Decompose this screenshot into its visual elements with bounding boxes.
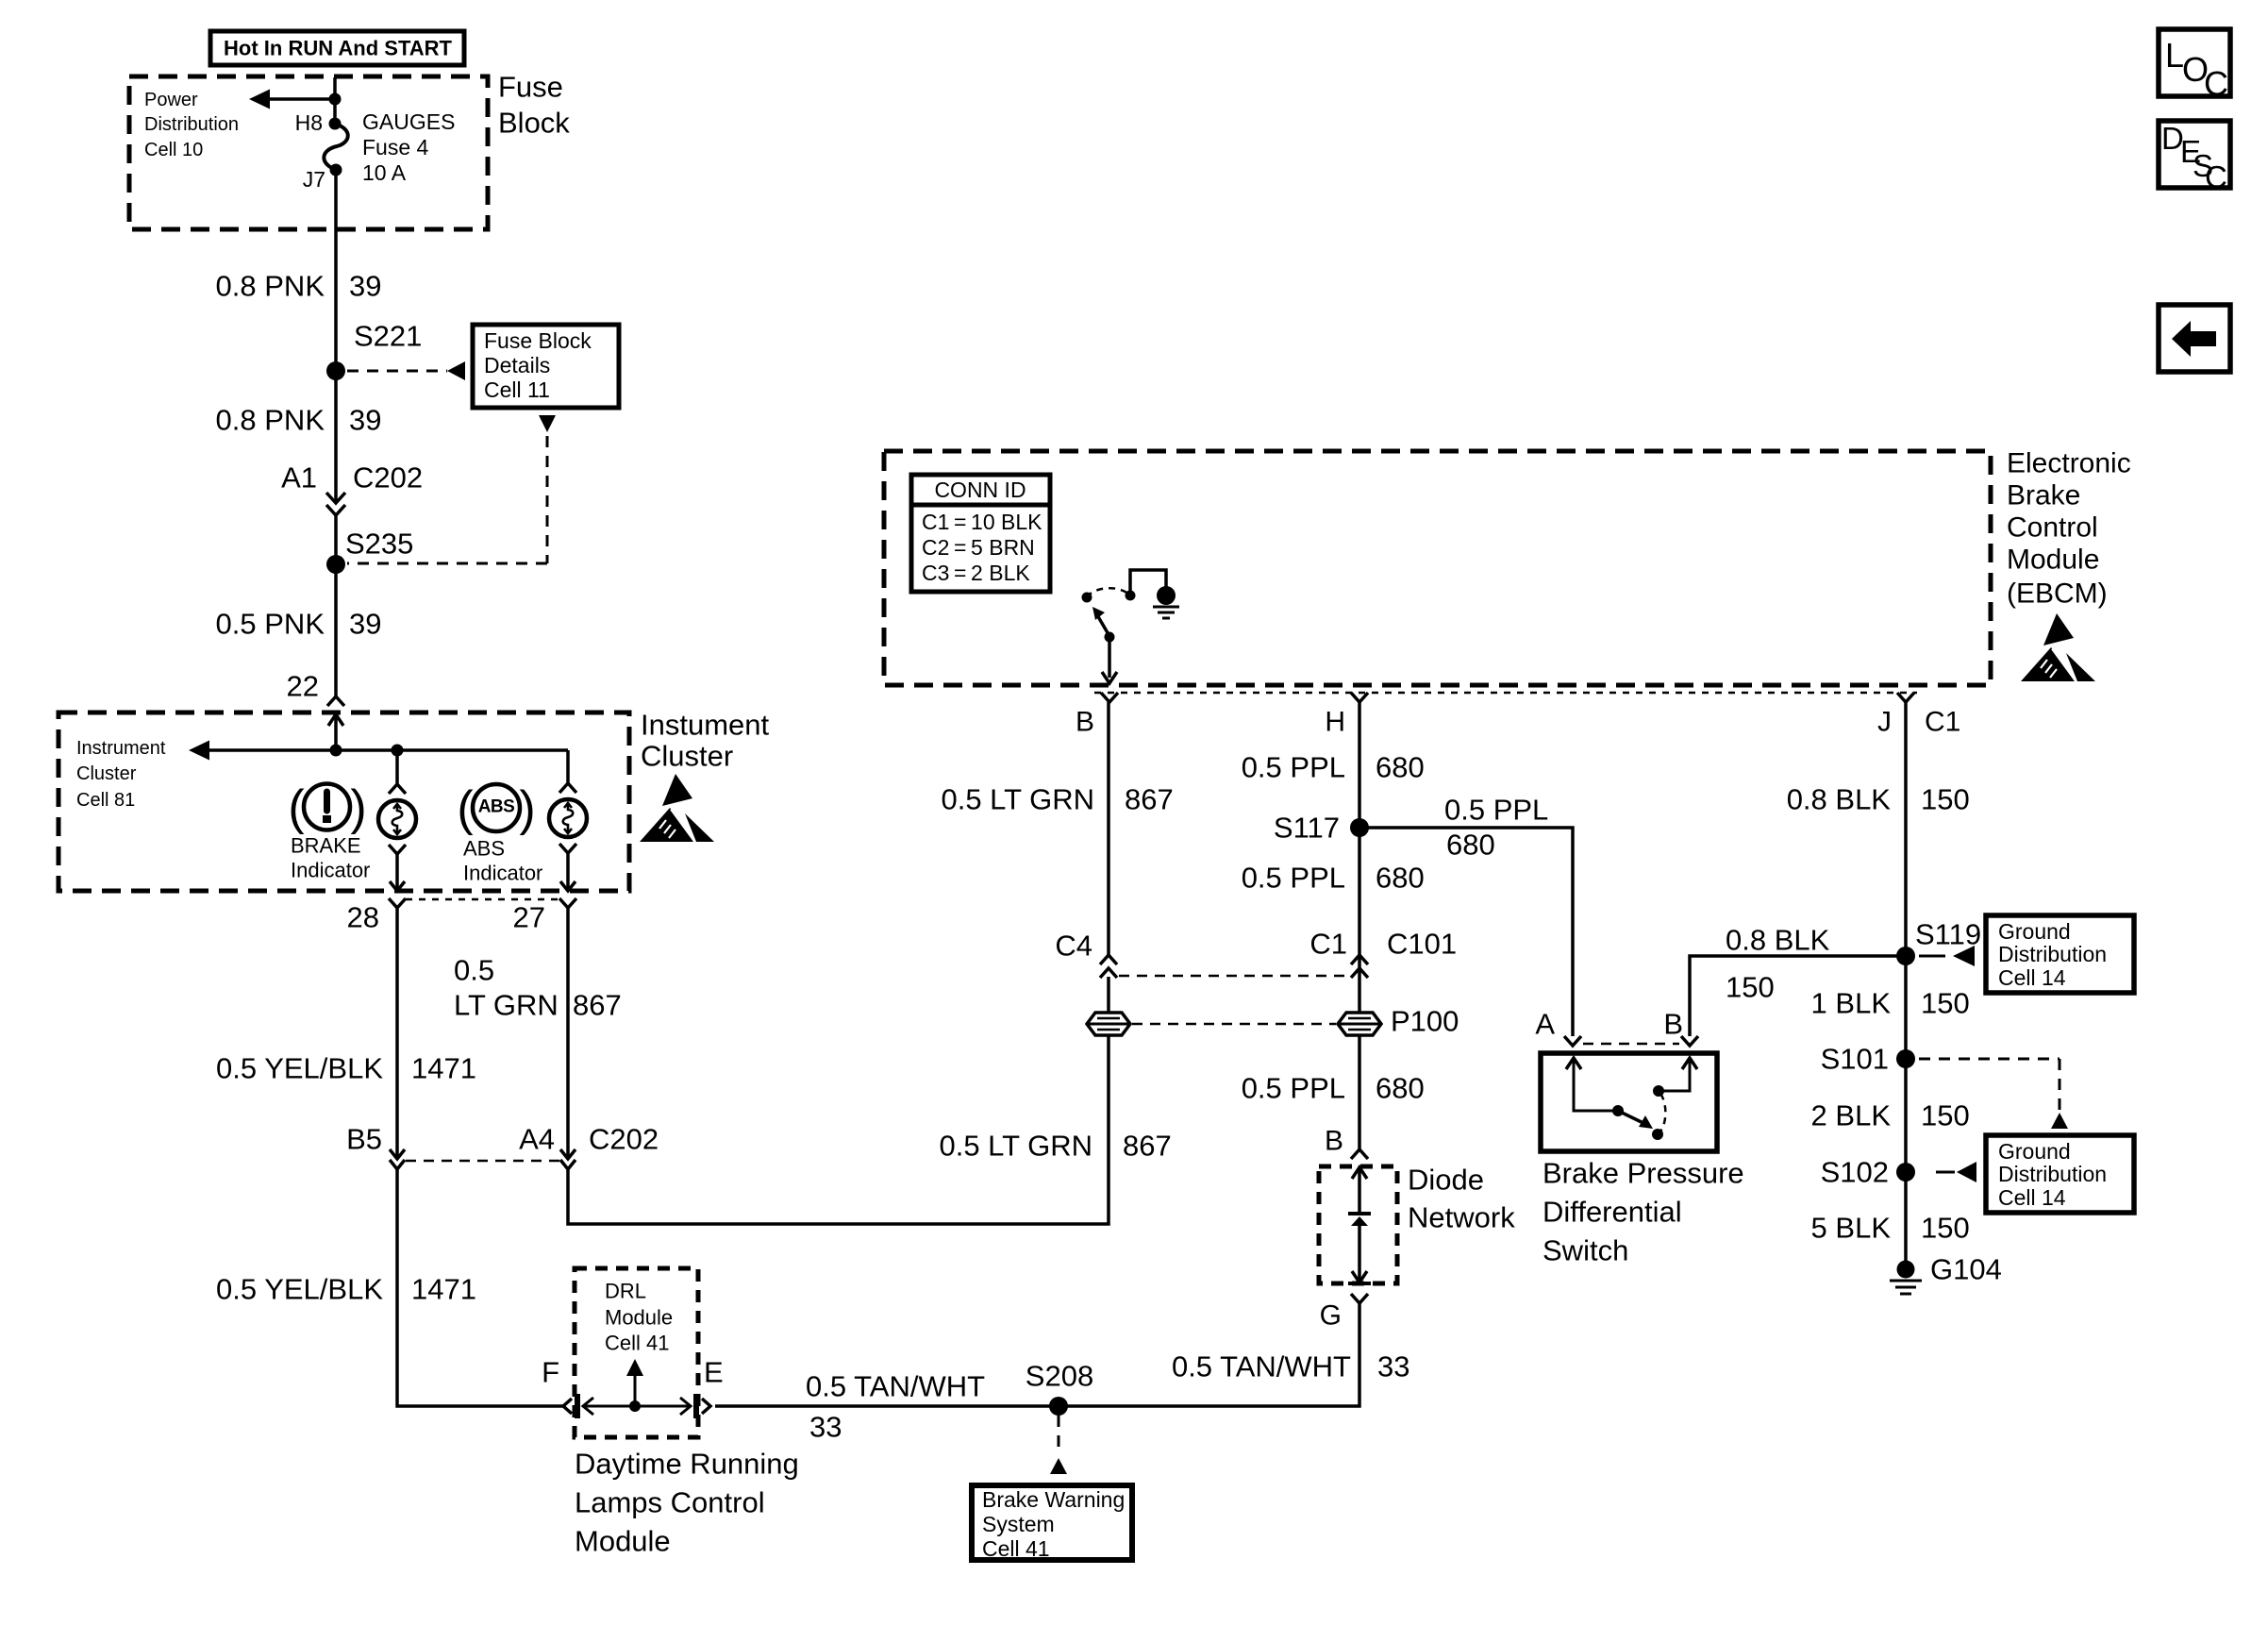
svg-text:Ground: Ground (1998, 919, 2071, 944)
svg-text:Brake Warning: Brake Warning (982, 1487, 1125, 1512)
connector: switch pin A chevron (1564, 1036, 1581, 1046)
svg-text:Module: Module (605, 1306, 673, 1330)
switch inside ebcm (brake warning lamp driver) (1082, 570, 1180, 683)
svg-text:Cell 41: Cell 41 (605, 1332, 669, 1355)
svg-text:H8: H8 (295, 110, 323, 135)
svg-text:Distribution: Distribution (144, 114, 239, 135)
wire: 5 BLK 150 from S102 to G104 (1904, 1172, 1908, 1269)
svg-text:C202: C202 (589, 1123, 659, 1156)
connector C202 pin A4 (519, 1123, 659, 1170)
electronic brake control module dashed box (884, 451, 1991, 685)
svg-text:1471: 1471 (411, 1273, 476, 1306)
svg-text:B: B (1663, 1008, 1683, 1041)
svg-text:22: 22 (287, 670, 319, 703)
wire: 0.8 PNK 39 from fuse to S221 (334, 170, 338, 371)
svg-text:): ) (350, 780, 366, 835)
svg-text:867: 867 (1123, 1130, 1172, 1163)
brake pressure differential switch box (1541, 1053, 1717, 1151)
wire label 0.8 PNK 39 (second) (216, 404, 382, 437)
svg-text:E: E (704, 1356, 724, 1389)
wire: dashed connector face line between A and B (1583, 1043, 1679, 1046)
wire label 0.5 PPL 680 (branch) (1444, 794, 1548, 862)
svg-text:680: 680 (1446, 829, 1495, 862)
svg-text:680: 680 (1376, 751, 1425, 784)
svg-text:0.5 PPL: 0.5 PPL (1242, 862, 1345, 895)
svg-text:0.5 LT GRN: 0.5 LT GRN (941, 783, 1094, 816)
svg-text:F: F (542, 1356, 559, 1389)
svg-text:Indicator: Indicator (463, 862, 542, 885)
back arrow box (2159, 305, 2230, 372)
svg-text:Power: Power (144, 90, 198, 110)
svg-text:System: System (982, 1512, 1055, 1536)
svg-text:S101: S101 (1821, 1043, 1889, 1076)
svg-text:Instument: Instument (641, 709, 770, 742)
svg-text:Cluster: Cluster (76, 763, 137, 784)
svg-text:Cluster: Cluster (641, 740, 733, 773)
wire: dashed line between P100 grommets (1132, 1023, 1336, 1026)
wire: dashed reference arrow from S102 (1936, 1162, 1976, 1182)
svg-text:C2 = 5 BRN: C2 = 5 BRN (922, 535, 1035, 560)
svg-text:Fuse Block: Fuse Block (484, 328, 592, 353)
connector: diode network pin B chevron (1351, 1149, 1368, 1159)
node: fuse terminal J7 dot (330, 164, 342, 176)
svg-text:S221: S221 (354, 320, 422, 353)
svg-text:DRL: DRL (605, 1280, 646, 1303)
svg-text:J7: J7 (303, 167, 325, 192)
instrument cluster cell 81 label (76, 738, 166, 811)
svg-text:150: 150 (1921, 1212, 1970, 1245)
hot-in-run-and-start box (210, 31, 464, 65)
svg-text:150: 150 (1921, 783, 1970, 816)
svg-text:B5: B5 (346, 1123, 382, 1156)
svg-text:0.5 TAN/WHT: 0.5 TAN/WHT (806, 1370, 985, 1403)
wire label 0.5 PPL 680 (first) (1242, 751, 1425, 784)
wire label 0.5 PPL 680 (second) (1242, 862, 1425, 895)
wire: 0.8 BLK 150 from switch B up to S119 (1690, 956, 1906, 1036)
svg-text:BRAKE: BRAKE (291, 834, 361, 858)
svg-text:Electronic: Electronic (2007, 448, 2131, 479)
svg-text:680: 680 (1376, 1072, 1425, 1105)
svg-text:GAUGES: GAUGES (362, 109, 455, 134)
svg-text:A4: A4 (519, 1123, 555, 1156)
node: splice S117 (1350, 818, 1369, 837)
wire: dashed reference from S221 to fuse block details (347, 361, 465, 380)
svg-text:A: A (1535, 1008, 1555, 1041)
esd symbol at ebcm (2021, 613, 2095, 686)
svg-text:2 BLK: 2 BLK (1811, 1099, 1892, 1132)
drl module dashed box (575, 1268, 698, 1437)
wire: dashed reference from S119 to ground distribution (1919, 946, 1975, 966)
drl module cell 41 label (605, 1280, 673, 1355)
ground distribution cell 14 box (lower) (1986, 1135, 2134, 1213)
wire: 1 BLK 150 from S119 to S101 (1904, 956, 1908, 1059)
svg-text:Cell 14: Cell 14 (1998, 1185, 2066, 1210)
svg-text:5 BLK: 5 BLK (1811, 1212, 1892, 1245)
svg-text:S117: S117 (1274, 812, 1340, 845)
svg-text:Distribution: Distribution (1998, 1162, 2107, 1186)
node: splice S235 (326, 555, 345, 574)
svg-text:0.5 LT GRN: 0.5 LT GRN (939, 1130, 1092, 1163)
grommet P100 right (1338, 1013, 1381, 1035)
instrument cluster outside label (641, 709, 770, 773)
svg-text:Module: Module (2007, 545, 2099, 576)
wire: 0.5 PPL 680 from ebcm H to S117 (1358, 702, 1361, 1149)
brake warning system cell 41 box (972, 1485, 1132, 1561)
svg-text:1 BLK: 1 BLK (1811, 987, 1892, 1020)
svg-text:0.5 YEL/BLK: 0.5 YEL/BLK (216, 1052, 383, 1085)
svg-text:Diode: Diode (1408, 1164, 1484, 1197)
svg-text:Cell 81: Cell 81 (76, 790, 135, 811)
svg-text:Cell 14: Cell 14 (1998, 965, 2066, 990)
diode network label (1408, 1164, 1515, 1234)
ebcm label (2007, 448, 2131, 610)
svg-text:Details: Details (484, 353, 550, 377)
loc box (2159, 29, 2230, 103)
node: fuse terminal H8 dot (329, 118, 342, 130)
svg-text:Instrument: Instrument (76, 738, 166, 759)
wire: 0.5 LT GRN 867 from ebcm B to C4 (1107, 702, 1110, 955)
connector C202 pin A1 (inline connector chevrons) (281, 461, 423, 516)
connector: drl pin F (563, 1394, 580, 1418)
connector C202 pin B5 (346, 1123, 405, 1170)
brake indicator label (291, 834, 370, 882)
svg-text:C1: C1 (1925, 707, 1960, 738)
svg-text:C1 = 10 BLK: C1 = 10 BLK (922, 510, 1042, 534)
svg-text:B: B (1076, 707, 1094, 738)
wire: cluster internal bus with arrow to cell 81 (189, 741, 568, 761)
wire label 0.8 BLK 150 (J column) (1787, 783, 1970, 816)
wire label 0.5 LT GRN 867 (lower) (939, 1130, 1171, 1163)
wire: fine dashed connector line below cluster (406, 898, 560, 901)
wire: 0.5 LT GRN 867 from pin 27 to A4 (566, 908, 570, 1159)
svg-text:C4: C4 (1055, 930, 1092, 963)
fuse block dashed box (129, 76, 488, 229)
switch internals (movable contact) (1566, 1058, 1697, 1140)
wire: dashed reference from fuse block details down to S235 (347, 415, 556, 563)
svg-text:39: 39 (349, 270, 381, 303)
svg-text:A1: A1 (281, 461, 317, 495)
connector: cluster pin 27 exit arrows (559, 881, 576, 908)
wire label 0.5 PPL 680 (third) (1242, 1072, 1425, 1105)
svg-text:C: C (2204, 64, 2228, 103)
svg-text:Fuse 4: Fuse 4 (362, 135, 429, 159)
wire: 2 BLK 150 from S101 to S102 (1904, 1059, 1908, 1172)
wire label 0.5 YEL/BLK 1471 (216, 1052, 476, 1085)
svg-text:Daytime Running: Daytime Running (575, 1448, 799, 1481)
node: splice S221 (326, 361, 345, 380)
wire label 0.5 PNK 39 (216, 608, 382, 641)
wire: from C202 to S235 (334, 515, 338, 564)
abs indicator label (463, 837, 542, 885)
connector: switch pin B chevron (1681, 1036, 1698, 1046)
drl internal pass-through arrow with cell 41 reference (583, 1359, 691, 1415)
svg-text:Indicator: Indicator (291, 859, 370, 882)
wire label 2 BLK 150 (1811, 1099, 1970, 1132)
svg-text:0.8 PNK: 0.8 PNK (216, 270, 325, 303)
desc box (2159, 121, 2230, 194)
lamp: brake indicator bulb (378, 750, 416, 889)
svg-text:0.5: 0.5 (454, 954, 494, 987)
fuse element (GAUGES Fuse 4) s-curve (324, 124, 347, 170)
ground G104 (1890, 1261, 1922, 1295)
connector: diode network pin G chevron (1320, 1294, 1368, 1332)
svg-text:27: 27 (513, 901, 545, 934)
node: junction dot at branch (329, 93, 342, 106)
esd symbol at instrument cluster (640, 774, 714, 847)
wire label 5 BLK 150 (1811, 1212, 1970, 1245)
svg-text:0.8 BLK: 0.8 BLK (1726, 924, 1830, 957)
svg-text:J: J (1877, 707, 1892, 738)
wire: dashed reference from S208 to brake warning system (1050, 1416, 1067, 1474)
svg-text:B: B (1325, 1126, 1343, 1157)
wire: 0.5 LT GRN 867 from A4 down and across to C4 (568, 977, 1109, 1224)
svg-text:S102: S102 (1821, 1156, 1889, 1189)
connector: cluster pin 22 female chevron (327, 696, 344, 706)
node: splice S102 (1896, 1163, 1915, 1182)
svg-text:Network: Network (1408, 1201, 1515, 1234)
svg-text:S235: S235 (345, 528, 413, 561)
gauges fuse 4 10A label (362, 109, 455, 185)
node: bus junction at brake lamp (392, 745, 404, 757)
svg-text:0.5 YEL/BLK: 0.5 YEL/BLK (216, 1273, 383, 1306)
svg-text:Lamps Control: Lamps Control (575, 1486, 765, 1519)
node: splice S101 (1896, 1049, 1915, 1068)
svg-text:C1: C1 (1309, 928, 1347, 961)
connector C101 pin C1 chevrons (1309, 928, 1457, 979)
svg-text:0.5 PPL: 0.5 PPL (1444, 794, 1548, 827)
svg-text:150: 150 (1726, 971, 1775, 1004)
lamp: abs indicator bulb (549, 750, 587, 889)
wire: 0.8 PNK 39 from S221 to C202 (334, 371, 338, 502)
node: bus junction at pin 22 (330, 745, 342, 757)
svg-text:G104: G104 (1930, 1253, 2002, 1286)
wire: dashed reference from S101 to ground distribution (lower) (1919, 1059, 2068, 1129)
wire: dashed connector face line between B5 and A4 (406, 1160, 559, 1163)
brake indicator symbol (288, 780, 366, 835)
svg-text:C101: C101 (1387, 928, 1457, 961)
diode network dashed box (1319, 1166, 1397, 1283)
svg-text:C: C (2205, 159, 2227, 194)
svg-text:C202: C202 (353, 461, 423, 495)
svg-text:10 A: 10 A (362, 160, 407, 185)
svg-text:Brake Pressure: Brake Pressure (1543, 1157, 1744, 1190)
wire: feed from hot box into fuse block (333, 77, 337, 124)
node: splice S208 (1049, 1397, 1068, 1416)
svg-text:Brake: Brake (2007, 480, 2080, 511)
instrument cluster dashed box (58, 712, 629, 891)
wire: 0.5 PNK 39 from S235 to instrument cluster (334, 564, 338, 696)
svg-text:S208: S208 (1026, 1360, 1093, 1393)
wire label 0.5 TAN/WHT 33 (right) (1172, 1350, 1410, 1383)
wire: 0.5 YEL/BLK 1471 from B5 down to DRL module (397, 1169, 563, 1406)
svg-text:0.8 BLK: 0.8 BLK (1787, 783, 1892, 816)
brake pressure differential switch label (1543, 1157, 1744, 1267)
svg-text:G: G (1320, 1300, 1342, 1332)
svg-text:Switch: Switch (1543, 1234, 1628, 1267)
svg-text:(EBCM): (EBCM) (2007, 578, 2108, 610)
svg-text:H: H (1325, 707, 1345, 738)
wire: branch to power distribution with arrow (249, 90, 335, 109)
conn id table box (911, 475, 1050, 592)
wire label 0.5 LT GRN 867 (ebcm side) (941, 783, 1173, 816)
wire: 0.8 BLK 150 from ebcm J to S119 (1904, 702, 1908, 956)
svg-text:S119: S119 (1915, 918, 1981, 951)
svg-text:ABS: ABS (478, 797, 515, 817)
svg-text:Cell 10: Cell 10 (144, 140, 203, 160)
svg-text:33: 33 (1377, 1350, 1409, 1383)
wire: 0.5 YEL/BLK 1471 from pin 28 to B5 (395, 908, 399, 1159)
svg-text:39: 39 (349, 608, 381, 641)
wire label 0.8 BLK 150 (horizontal) (1726, 924, 1830, 1004)
wire label 0.8 PNK 39 (216, 270, 382, 303)
svg-text:867: 867 (1125, 783, 1174, 816)
connector: ebcm pin B chevron (1076, 693, 1118, 738)
svg-text:Hot In RUN And START: Hot In RUN And START (224, 37, 453, 60)
fuse block details cell 11 box (473, 325, 619, 408)
diode D1 with bidirectional arrows (1348, 1167, 1371, 1283)
connector: ebcm pin H chevron (1325, 693, 1368, 738)
wire: fine dotted connector face line under ebcm (1094, 692, 1917, 695)
svg-text:Block: Block (498, 107, 570, 140)
svg-text:Module: Module (575, 1525, 671, 1558)
svg-text:0.5 PPL: 0.5 PPL (1242, 1072, 1345, 1105)
svg-text:C3 = 2 BLK: C3 = 2 BLK (922, 561, 1030, 585)
svg-text:39: 39 (349, 404, 381, 437)
svg-text:0.5 TAN/WHT: 0.5 TAN/WHT (1172, 1350, 1351, 1383)
wire label 0.5 TAN/WHT 33 (left) (806, 1370, 985, 1444)
svg-text:Cell 11: Cell 11 (484, 377, 550, 402)
connector: ebcm pin J chevron C1 (1877, 693, 1960, 738)
svg-text:1471: 1471 (411, 1052, 476, 1085)
svg-text:0.8 PNK: 0.8 PNK (216, 404, 325, 437)
connector: cluster pin 28 exit arrows (389, 881, 406, 908)
daytime running lamps control module label (575, 1448, 799, 1558)
svg-text:Fuse: Fuse (498, 71, 563, 104)
connector: drl pin E (693, 1394, 710, 1418)
wire label 0.5 YEL/BLK 1471 (second) (216, 1273, 476, 1306)
svg-text:Cell 41: Cell 41 (982, 1536, 1050, 1561)
svg-text:P100: P100 (1391, 1005, 1459, 1038)
svg-text:Ground: Ground (1998, 1139, 2071, 1164)
grommet P100 left (1087, 1013, 1130, 1035)
svg-text:150: 150 (1921, 1099, 1970, 1132)
svg-text:33: 33 (809, 1411, 842, 1444)
abs indicator symbol (457, 781, 535, 836)
fuse block label (498, 71, 570, 140)
svg-text:0.5 PPL: 0.5 PPL (1242, 751, 1345, 784)
svg-text:Control: Control (2007, 512, 2098, 544)
connector C4 chevrons (1055, 930, 1117, 979)
wire label 1 BLK 150 (1811, 987, 1970, 1020)
svg-text:0.5 PNK: 0.5 PNK (216, 608, 325, 641)
ground distribution cell 14 box (upper) (1986, 915, 2134, 993)
connector: cluster pin 22 male arrow entering box (328, 714, 343, 750)
svg-text:680: 680 (1376, 862, 1425, 895)
wire label 0.5 LT GRN 867 (454, 954, 622, 1022)
svg-text:150: 150 (1921, 987, 1970, 1020)
node: splice S119 (1896, 947, 1915, 965)
svg-text:CONN ID: CONN ID (934, 478, 1026, 502)
svg-text:Distribution: Distribution (1998, 942, 2107, 966)
wire: 0.5 PPL 680 branch from S117 to switch pin A (1359, 828, 1573, 1036)
wire: 0.5 TAN/WHT 33 from G down to S208 and DRL (715, 1303, 1359, 1406)
svg-text:LT GRN: LT GRN (454, 989, 559, 1022)
svg-text:28: 28 (347, 901, 379, 934)
power distribution cell 10 label (144, 90, 239, 160)
svg-text:Differential: Differential (1543, 1196, 1682, 1229)
svg-text:ABS: ABS (463, 837, 505, 861)
svg-text:867: 867 (573, 989, 622, 1022)
wire: dashed connector line C4 to C101 (1119, 975, 1351, 978)
